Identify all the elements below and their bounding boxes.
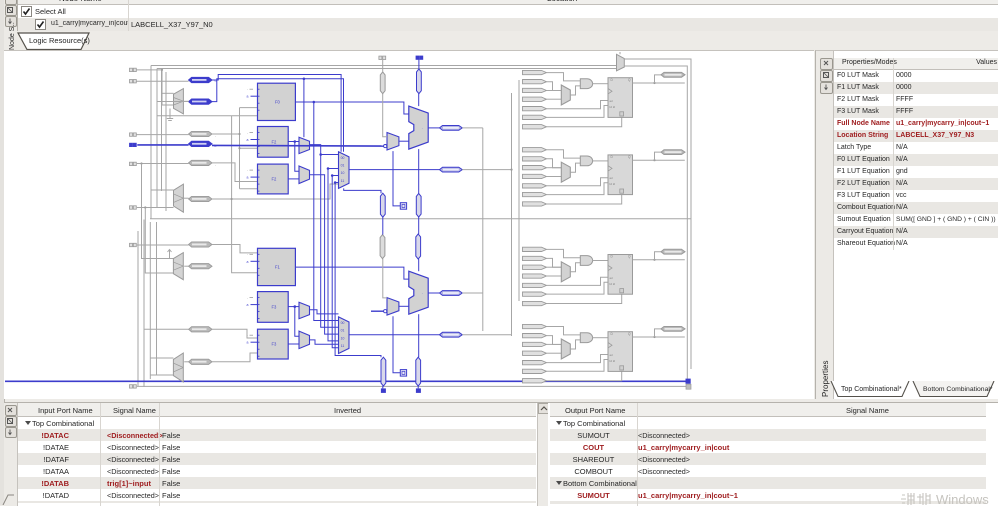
svg-text:lcl ld: lcl ld bbox=[610, 359, 616, 363]
svg-text:lcl ld: lcl ld bbox=[610, 282, 616, 286]
svg-text:F2: F2 bbox=[271, 177, 277, 182]
svg-text:10: 10 bbox=[341, 336, 345, 340]
svg-text:Top Combinational*: Top Combinational* bbox=[841, 386, 902, 393]
svg-text:.: . bbox=[422, 125, 423, 130]
svg-text:a: a bbox=[247, 341, 249, 345]
svg-text:00: 00 bbox=[341, 321, 345, 325]
svg-text:lcl ld: lcl ld bbox=[610, 105, 616, 109]
svg-text:ad: ad bbox=[610, 353, 614, 357]
svg-text:Node S...: Node S... bbox=[9, 22, 16, 50]
svg-text:11: 11 bbox=[341, 179, 345, 183]
svg-text:F3: F3 bbox=[271, 342, 277, 347]
svg-text:F2: F2 bbox=[271, 139, 277, 144]
svg-text:a: a bbox=[247, 260, 249, 264]
svg-text:ad: ad bbox=[610, 276, 614, 280]
svg-text:Windows: Windows bbox=[936, 492, 989, 505]
svg-text:F0: F0 bbox=[275, 99, 281, 104]
svg-text:11: 11 bbox=[341, 344, 345, 348]
svg-text:10: 10 bbox=[341, 171, 345, 175]
svg-text:01: 01 bbox=[341, 164, 345, 168]
svg-text:a: a bbox=[247, 176, 249, 180]
svg-text:a: a bbox=[247, 138, 249, 142]
svg-text:Bottom Combinational*: Bottom Combinational* bbox=[923, 386, 993, 393]
svg-text:00: 00 bbox=[341, 156, 345, 160]
svg-text:ad: ad bbox=[610, 99, 614, 103]
svg-text:lcl ld: lcl ld bbox=[610, 182, 616, 186]
svg-text:F3: F3 bbox=[271, 305, 277, 310]
svg-text:ad: ad bbox=[610, 176, 614, 180]
svg-text:F1: F1 bbox=[275, 264, 281, 269]
svg-text:a: a bbox=[247, 95, 249, 99]
svg-text:.: . bbox=[422, 290, 423, 295]
svg-text:01: 01 bbox=[341, 329, 345, 333]
svg-text:a: a bbox=[247, 303, 249, 307]
